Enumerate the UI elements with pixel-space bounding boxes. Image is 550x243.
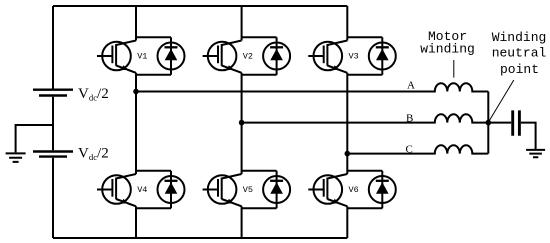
svg-text:V6: V6 xyxy=(348,185,358,195)
svg-text:V1: V1 xyxy=(137,52,147,62)
svg-text:V5: V5 xyxy=(243,185,253,195)
svg-text:V4: V4 xyxy=(137,185,147,195)
svg-text:B: B xyxy=(406,113,413,125)
svg-text:V3: V3 xyxy=(348,52,358,62)
svg-text:point: point xyxy=(500,62,539,77)
svg-text:neutral: neutral xyxy=(492,45,547,60)
svg-text:A: A xyxy=(407,79,415,91)
svg-text:C: C xyxy=(406,143,413,155)
svg-text:Vdc/2: Vdc/2 xyxy=(78,86,109,102)
svg-text:winding: winding xyxy=(420,42,475,57)
svg-text:Winding: Winding xyxy=(492,30,547,45)
svg-text:Vdc/2: Vdc/2 xyxy=(78,146,109,162)
svg-text:V2: V2 xyxy=(243,52,253,62)
